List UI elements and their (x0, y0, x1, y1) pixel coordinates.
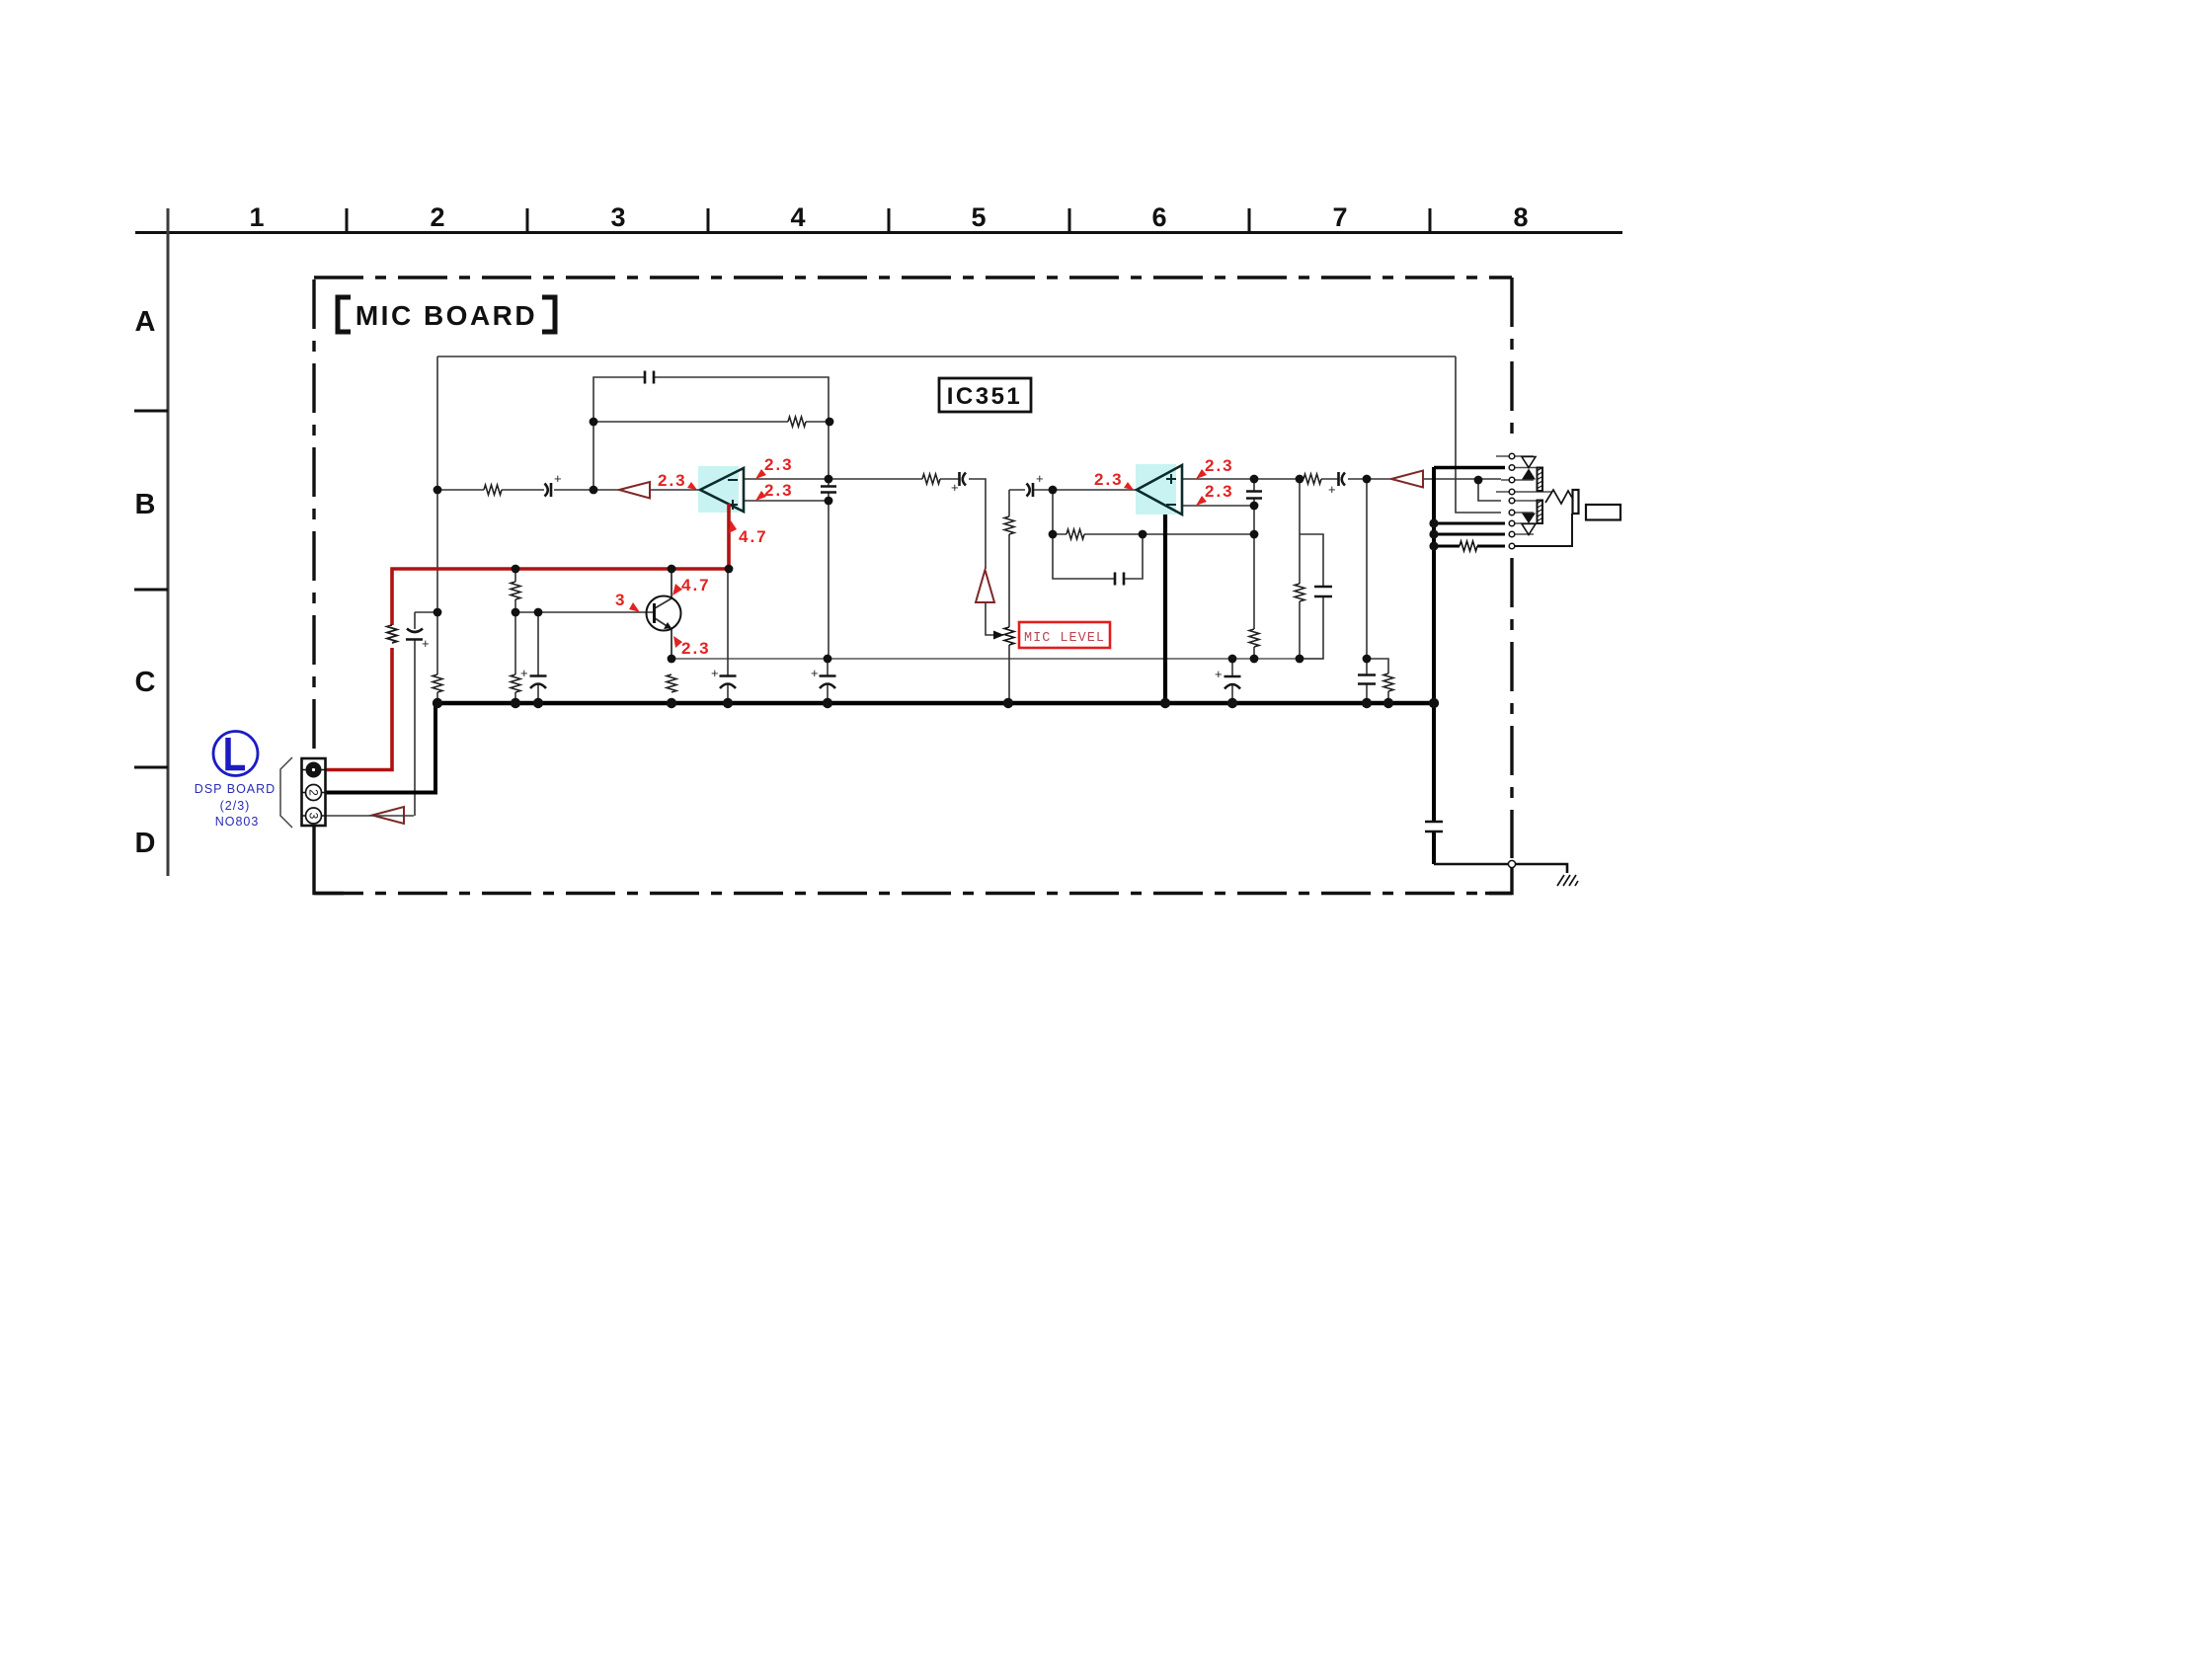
border solid segments near connector and corners (314, 826, 1512, 894)
red supply wire from connector pin1 (326, 648, 392, 770)
wire left rail vertical x443 (436, 356, 438, 703)
capacitor x545 polarized to ground (530, 676, 547, 689)
ground node circle on border (1508, 860, 1515, 867)
wire stage1 input segment (437, 489, 700, 491)
node dots stage1 input line (434, 486, 442, 495)
jack pin5 (1509, 498, 1515, 504)
capacitor output coupling polarized (1339, 472, 1346, 486)
op-amp U1b cyan body (1136, 464, 1176, 515)
svg-text:2.3: 2.3 (1205, 482, 1234, 501)
svg-text:2: 2 (306, 789, 320, 796)
signal arrow stage1 input (619, 482, 650, 499)
jack pin3 (1509, 477, 1515, 483)
thick op-amp2 output drop (1163, 510, 1167, 703)
svg-text:MIC LEVEL: MIC LEVEL (1024, 631, 1105, 646)
jack pin3 leads (1501, 479, 1534, 481)
jack switch contact lower hollow (1522, 524, 1536, 535)
svg-text:(2/3): (2/3) (220, 799, 251, 813)
jack pin6 (1509, 510, 1515, 515)
left margin row ticks (134, 411, 168, 767)
svg-text:2.3: 2.3 (1094, 470, 1124, 489)
signal arrow output line (1391, 471, 1423, 488)
wire x545 cap branch (537, 612, 539, 703)
connector CN pin3 (306, 808, 322, 824)
transistor Q1 circle (647, 596, 681, 631)
grid column numbers (249, 202, 1528, 232)
capacitor x737 polarized to ground (720, 676, 737, 689)
jack tip contact bracket (1573, 490, 1579, 514)
wire jack tip line to pin3 (1478, 478, 1501, 480)
resistor stage1 input series (484, 485, 502, 495)
node dots op-amp1 inputs (825, 475, 833, 484)
wire op-amp1 feedback cap loop (593, 377, 829, 490)
node dots output line (1296, 475, 1304, 484)
MIC BOARD title right bracket (542, 297, 555, 332)
ground symbol (1557, 875, 1578, 886)
svg-text:+: + (951, 480, 959, 495)
wire op-amp1 plus line (744, 500, 829, 502)
node dots op-amp1 feedback (590, 418, 598, 427)
thick ground bus rail (435, 701, 1434, 706)
wire op-amp2 minus line (1182, 479, 1254, 534)
node dot stage2 input (1049, 486, 1058, 495)
wire transistor emitter (655, 618, 671, 659)
resistor x1270 to mid rail (1249, 629, 1259, 647)
jack pin9 (1509, 543, 1515, 549)
svg-text:+: + (422, 636, 430, 651)
grid ruler line (135, 231, 1622, 234)
voltage arrowhead base (629, 602, 640, 612)
voltage arrowhead op-amp2 minus (1196, 496, 1207, 506)
grid row letters (135, 306, 156, 859)
red supply wire upper run (392, 504, 729, 625)
thick jack pin2 stub (1434, 466, 1505, 469)
wire ground lead bottom right (1434, 864, 1567, 873)
resistor x680 emitter to ground (667, 674, 676, 692)
wire top rail down to jack pin6 (1456, 356, 1501, 513)
voltage arrowhead op-amp2 apex (1124, 482, 1134, 490)
thick jack pin8 stub (1434, 533, 1505, 536)
svg-text:C: C (135, 667, 156, 698)
resistor interstage series (922, 474, 940, 484)
thick jack pin9 resistor lead (1434, 545, 1505, 548)
connector CN body (302, 758, 326, 826)
svg-text:4.7: 4.7 (739, 527, 768, 546)
jack pin5 right lead (1515, 500, 1538, 502)
node dots op-amp2 feedback (1049, 530, 1058, 539)
svg-text:+: + (1328, 482, 1336, 497)
wire op-amp2 feedback resistor (1053, 490, 1254, 534)
capacitor interstage coupling polarized (960, 472, 967, 486)
wire x1248 cap branch mid to ground rail (1231, 659, 1233, 703)
svg-text:7: 7 (1332, 202, 1347, 232)
wire top supply rail (437, 356, 1456, 357)
svg-text:DSP BOARD: DSP BOARD (195, 782, 276, 796)
grid ruler ticks (347, 208, 1430, 232)
wire x737 cap branch below red rail (727, 569, 729, 703)
wire x839 interstage vertical (828, 422, 829, 659)
op-amp U1b minus sign (1166, 504, 1176, 506)
MIC LEVEL label box (1019, 622, 1110, 648)
resistor x522 lower to ground (511, 674, 520, 692)
capacitor across op-amp1 inputs (821, 487, 836, 493)
jack pin1 (1509, 453, 1515, 459)
ref circle L letter (228, 738, 245, 768)
svg-text:B: B (135, 489, 156, 520)
wire mid rail (671, 658, 1323, 660)
wire op-amp1 feedback resistor loop (593, 421, 829, 423)
wire op-amp1 minus line (744, 478, 959, 480)
node dots op-amp2 inputs (1250, 475, 1259, 484)
jack insulator bar upper (1537, 468, 1542, 524)
svg-text:6: 6 (1151, 202, 1166, 232)
signal arrow pot feed up (976, 570, 994, 602)
svg-text:5: 5 (971, 202, 986, 232)
wire transistor collector (655, 569, 671, 608)
svg-text:2.3: 2.3 (764, 481, 794, 500)
svg-text:2: 2 (430, 202, 444, 232)
wire x838 cap branch mid to ground rail (827, 659, 829, 703)
capacitor x1340 output filter (1314, 587, 1332, 596)
jack pin9 right lead to tip contact (1515, 514, 1572, 546)
capacitor op-amp1 feedback (645, 371, 654, 384)
jack pin8 (1509, 531, 1515, 537)
jack insulator bar lower (1538, 501, 1543, 524)
capacitor x1248 polarized to ground (1224, 676, 1241, 689)
jack pin4 leads (1496, 491, 1552, 493)
wire stage2 coupling branch (1008, 490, 1010, 703)
ref circle L (213, 732, 258, 776)
svg-text:2.3: 2.3 (1205, 456, 1234, 475)
transistor Q1 emitter arrow (664, 622, 671, 629)
MIC BOARD title left bracket (338, 297, 351, 332)
svg-text:4: 4 (790, 202, 805, 232)
op-amp U1a plus sign (728, 500, 738, 510)
MIC BOARD dash-dot border (314, 277, 1512, 894)
op-amp U1b plus sign (1166, 474, 1176, 484)
voltage arrowhead op-amp1 apex (687, 482, 697, 490)
voltage arrowhead op-amp1 minus (755, 469, 766, 479)
thick jack pin7 stub (1434, 522, 1505, 525)
op-amp U1a minus sign (728, 479, 738, 481)
wire x1270 resistor branch to mid rail (1253, 534, 1255, 659)
IC351 label box (939, 378, 1031, 412)
jack switch contact lower filled (1522, 514, 1536, 524)
capacitor x1384 to ground (1358, 675, 1376, 684)
wire stage2 input line (1009, 489, 1137, 491)
resistor output series (1303, 474, 1321, 484)
left margin vertical line (167, 208, 170, 876)
jack spring contact zigzag (1545, 490, 1572, 504)
svg-text:+: + (811, 666, 819, 680)
resistor in supply feed x397 (387, 625, 397, 643)
jack pin8 right lead (1515, 533, 1534, 535)
wire x1497 to pin5 (1478, 479, 1501, 501)
wire x1384 cap to ground rail (1366, 659, 1368, 703)
resistor x443 to ground (433, 674, 442, 692)
thick jack bus vertical x1452 (1432, 467, 1436, 864)
svg-text:3: 3 (306, 813, 320, 820)
capacitor x838 polarized to ground (820, 676, 836, 689)
svg-text:A: A (135, 306, 156, 338)
node dots ground bus rail (433, 698, 442, 708)
wire base bias branch x443 (415, 612, 437, 816)
voltage arrowhead op-amp1 output (729, 520, 737, 533)
capacitor op-amp2 feedback (1115, 573, 1124, 586)
svg-text:3: 3 (615, 591, 626, 609)
svg-text:2.3: 2.3 (764, 455, 794, 474)
svg-text:1: 1 (249, 202, 264, 232)
signal arrow connector pin3 (372, 807, 404, 824)
svg-text:+: + (711, 666, 719, 680)
resistor op-amp2 feedback (1066, 529, 1084, 539)
wire x1406 resistor to ground rail (1367, 659, 1388, 703)
wire op-amp2 feedback cap loop (1053, 534, 1143, 579)
wire op-amp2 plus line (1182, 478, 1300, 480)
op-amp U1a triangle (700, 468, 744, 512)
thick wire rail left drop to connector pin2 (326, 703, 435, 793)
svg-text:2.3: 2.3 (658, 471, 687, 490)
wire x522 divider vertical (514, 569, 516, 703)
svg-text:NO803: NO803 (215, 815, 260, 829)
potentiometer wiper arrow (993, 634, 1003, 636)
capacitor stage1 coupling polarized (545, 483, 552, 497)
jack pin7 (1509, 520, 1515, 526)
connector CN pin1 (306, 762, 322, 778)
jack switch contact upper filled (1522, 469, 1536, 480)
capacitor across op-amp2 inputs (1246, 492, 1262, 499)
capacitor x420 polarized (406, 629, 423, 640)
op-amp U1b triangle (1137, 465, 1182, 515)
connector CN pin2 (306, 785, 322, 801)
svg-text:+: + (1036, 471, 1044, 486)
voltage arrowhead emitter (673, 636, 682, 648)
wire coupling cap to pot wiper (969, 479, 993, 635)
svg-text:+: + (554, 471, 562, 486)
potentiometer MIC LEVEL body (1004, 627, 1014, 645)
voltage arrowhead op-amp1 plus (755, 491, 766, 501)
jack pin4 (1509, 489, 1515, 495)
svg-text:+: + (520, 666, 528, 680)
capacitor on jack bus x1452 (1425, 822, 1443, 831)
capacitor stage2 input coupling polarized (1027, 483, 1034, 497)
jack pin6 right lead (1515, 512, 1534, 514)
svg-text:D: D (135, 828, 156, 859)
wire transistor base line (515, 611, 654, 613)
op-amp U1a cyan body (698, 466, 739, 513)
svg-text:IC351: IC351 (947, 383, 1023, 410)
node dots base line (434, 608, 442, 617)
resistor jack series R (1460, 541, 1477, 551)
wire output RC branch x1316 (1300, 479, 1323, 659)
svg-text:4.7: 4.7 (681, 576, 711, 594)
jack pin2 right lead (1515, 467, 1537, 469)
jack pin2 (1509, 465, 1515, 471)
svg-text:3: 3 (610, 202, 625, 232)
transistor Q1 base bar (653, 603, 656, 623)
jack switch contact upper hollow (1522, 457, 1536, 468)
resistor stage2 bias upper x1022 (1004, 516, 1014, 534)
wire output line after op-amp2 (1300, 478, 1478, 480)
voltage arrowhead op-amp2 plus (1196, 469, 1207, 479)
jack pin1 leads (1496, 455, 1534, 457)
node dots jack bus (1429, 518, 1438, 527)
svg-text:2.3: 2.3 (681, 639, 711, 658)
resistor op-amp1 feedback (788, 417, 806, 427)
svg-text:8: 8 (1513, 202, 1528, 232)
connector brace bracket (280, 757, 292, 828)
jack label empty box (1586, 505, 1620, 520)
node dots red supply rail (512, 565, 520, 574)
connector CN pin3 thin wire (326, 815, 414, 817)
jack pin7 right lead (1515, 522, 1537, 524)
wire x1384 branch vertical (1366, 479, 1368, 659)
resistor x1406 to ground (1383, 673, 1393, 691)
resistor x522 upper divider (511, 582, 520, 599)
voltage arrowhead collector (672, 584, 682, 595)
node dots mid rail (668, 655, 676, 664)
connector CN pin stub lines (302, 770, 325, 817)
resistor x1316 output load (1295, 584, 1304, 601)
svg-text:MIC BOARD: MIC BOARD (355, 300, 537, 331)
svg-text:+: + (1215, 667, 1223, 681)
